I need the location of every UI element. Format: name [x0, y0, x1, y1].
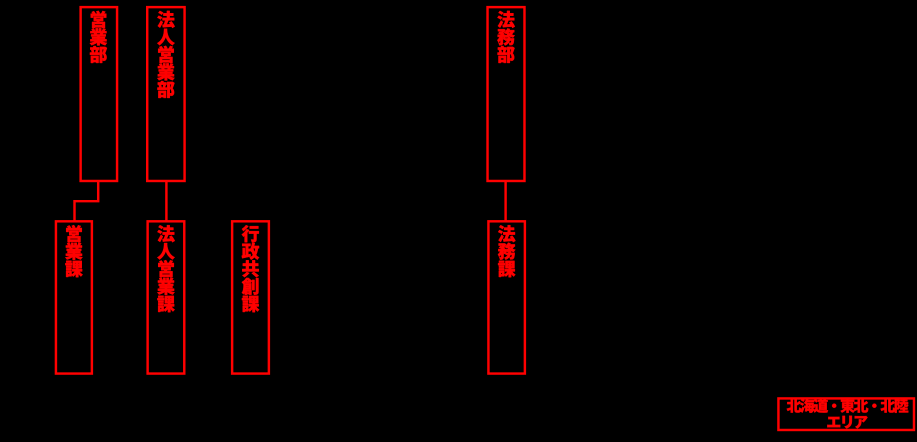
- wire 営業部 to 営業課 (stepped): [75, 181, 99, 221]
- label 営業部 (vertical): [90, 11, 107, 63]
- label 法務課 (vertical): [498, 225, 516, 277]
- label 法務部 (vertical): [497, 11, 515, 63]
- box 法人営業課 (Corporate Sales Sect): [148, 221, 185, 373]
- label 法人営業課 (vertical): [157, 225, 175, 312]
- box 営業部 (Sales Dept): [81, 7, 117, 181]
- box 法務課 (Legal Sect): [488, 221, 524, 373]
- wire 法務部 to 法務課: [504, 181, 506, 221]
- box 法人営業部 (Corporate Sales Dept): [147, 7, 184, 181]
- label エリア (horizontal): [827, 416, 867, 429]
- label 営業課 (vertical): [65, 225, 82, 277]
- box 北海道・東北・北陸エリア (area): [778, 398, 914, 430]
- label 北海道・東北・北陸 (horizontal): [787, 399, 909, 413]
- box 法務部 (Legal Dept): [488, 7, 525, 181]
- label 行政共創課 (vertical): [242, 225, 260, 312]
- wire 法人営業部 to 法人営業課: [165, 181, 167, 221]
- box 行政共創課 (Admin Co-creation Sect): [232, 221, 269, 373]
- label 法人営業部 (vertical): [157, 11, 175, 98]
- box 営業課 (Sales Sect): [56, 221, 92, 373]
